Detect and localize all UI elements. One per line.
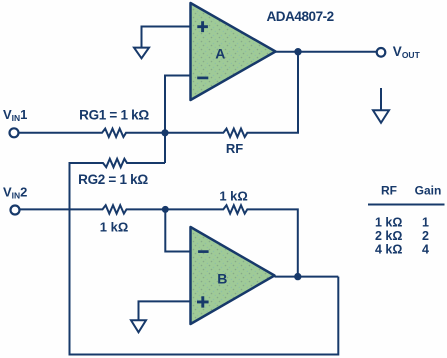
svg-text:VIN2: VIN2 (3, 184, 27, 200)
svg-text:RG1 = 1 kΩ: RG1 = 1 kΩ (79, 108, 149, 123)
svg-text:B: B (217, 270, 227, 286)
svg-text:2 kΩ: 2 kΩ (375, 229, 402, 243)
svg-text:ADA4807-2: ADA4807-2 (267, 9, 334, 24)
svg-text:4 kΩ: 4 kΩ (375, 243, 402, 257)
svg-text:VIN1: VIN1 (3, 107, 27, 123)
svg-text:1 kΩ: 1 kΩ (100, 219, 129, 234)
svg-text:2: 2 (422, 229, 429, 243)
svg-text:VOUT: VOUT (393, 44, 421, 60)
svg-text:Gain: Gain (415, 184, 442, 198)
svg-text:1 kΩ: 1 kΩ (219, 189, 248, 204)
svg-text:1: 1 (422, 216, 429, 230)
svg-text:4: 4 (422, 243, 429, 257)
svg-text:RF: RF (381, 184, 397, 198)
svg-text:1 kΩ: 1 kΩ (375, 216, 402, 230)
svg-text:RG2 = 1 kΩ: RG2 = 1 kΩ (78, 172, 148, 187)
svg-text:RF: RF (226, 141, 243, 156)
svg-text:A: A (215, 46, 225, 62)
